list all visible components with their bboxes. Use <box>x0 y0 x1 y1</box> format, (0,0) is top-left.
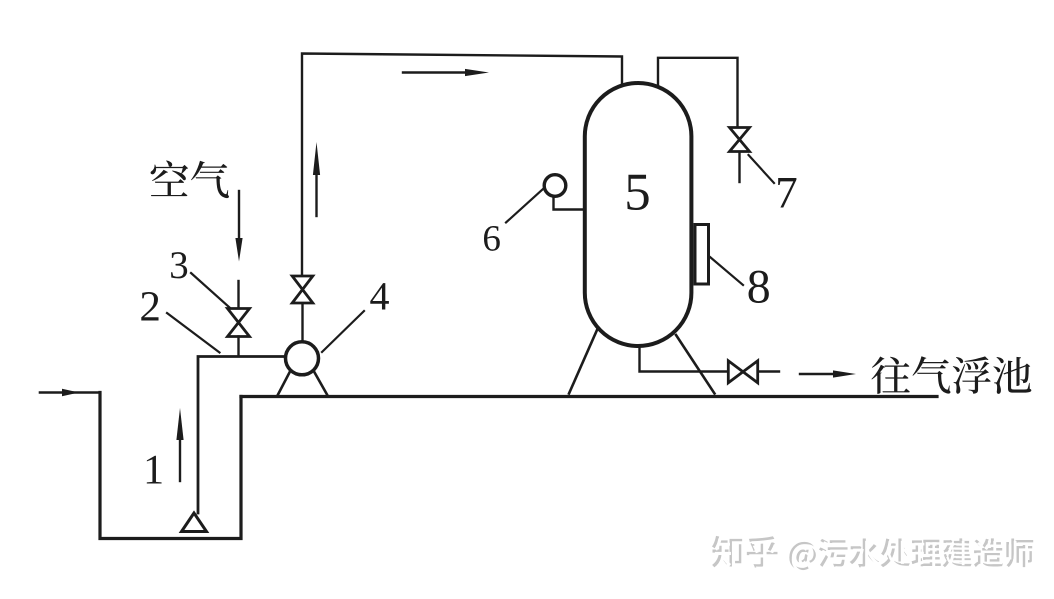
text 往气浮池 (to flotation tank) <box>871 356 1031 394</box>
sump (pit) walls <box>100 393 241 539</box>
leader line for label 3 <box>191 273 230 308</box>
leader line for label 1 (none) / label 2 <box>167 313 220 353</box>
leader line for label 8 <box>710 257 743 285</box>
foot valve strainer (pipe 1 bottom) <box>182 513 207 532</box>
arrow: inflow direction <box>62 389 79 397</box>
wire: gauge stem to tank <box>554 198 585 210</box>
valve above pump (discharge valve) <box>292 276 313 303</box>
label 6 (pressure gauge) <box>484 226 500 251</box>
label 3 (air valve) <box>171 252 187 278</box>
wire: tank top vent line to valve 7 <box>658 58 738 126</box>
tank support leg right <box>676 335 715 394</box>
pump U4 casing circle <box>286 342 319 375</box>
wire: stub above valve 3 <box>237 281 239 308</box>
label 4 (pump) <box>370 283 389 309</box>
sight glass / level gauge 8 <box>695 225 709 285</box>
leader line for label 4 <box>322 311 364 352</box>
leader line for label 6 <box>506 189 544 223</box>
ground line <box>241 395 937 398</box>
label 8 (level gauge) <box>749 271 769 303</box>
wire: suction pipe 2 from sump to pump <box>198 357 285 514</box>
wire: after outlet valve <box>759 370 780 372</box>
wire: valve 3 to pipe 2 <box>237 337 239 356</box>
pump base triangle <box>278 372 327 395</box>
label 7 (vent valve) <box>778 178 796 207</box>
wire: stub below valve 7 <box>738 153 740 183</box>
watermark shadow 知乎 <box>712 536 777 568</box>
tank support leg left <box>569 330 597 394</box>
arrow: upward flow in riser <box>315 173 317 216</box>
pressure gauge 6 <box>544 175 566 197</box>
watermark text 知乎 <box>714 538 779 570</box>
valve 7 (vent/relief valve) <box>730 128 750 152</box>
wire: tank bottom outlet pipe <box>640 346 728 372</box>
wire: riser pipe and top header to tank <box>302 54 622 276</box>
arrow: outflow to flotation tank <box>800 373 836 375</box>
arrow: air (空气) inflow downward <box>238 191 240 239</box>
valve 3 (air inlet valve) <box>228 309 250 337</box>
pressure tank vessel 5 <box>585 83 692 346</box>
text 空气 (air) label <box>151 161 229 199</box>
label 2 (suction pipe header) <box>141 292 158 320</box>
label 5 (pressure tank) <box>627 175 648 210</box>
label 1 (suction pipe) <box>147 456 162 484</box>
watermark shadow @污水处理建造师 <box>789 538 1033 570</box>
arrow: flow right along top header <box>403 71 467 73</box>
arrow: upward flow in pipe 1 <box>179 437 181 481</box>
wire: valve to pump <box>301 304 303 341</box>
leader line for label 7 <box>749 155 775 183</box>
watermark text @污水处理建造师 <box>792 541 1036 573</box>
wire: inlet pipe into sump <box>40 391 98 394</box>
outlet valve (to flotation tank) <box>728 361 757 383</box>
